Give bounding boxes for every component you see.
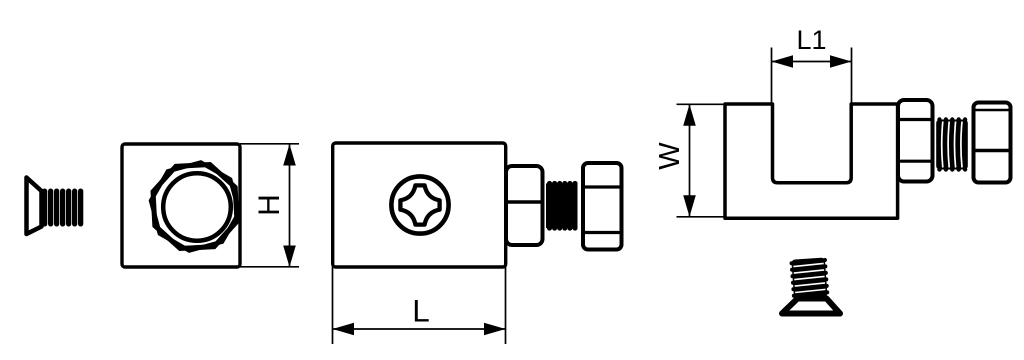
square nut block (front view) bbox=[122, 144, 245, 267]
bolt B1 nut (side view, on block2) bbox=[506, 166, 543, 245]
H arrow up bbox=[283, 144, 296, 166]
L1 extension line right bbox=[851, 48, 853, 105]
screw S1 head bbox=[27, 178, 42, 235]
L1 arrow left bbox=[772, 55, 794, 68]
screw S2 head bbox=[782, 299, 840, 314]
screw S2 (vertical, head down) bbox=[782, 257, 840, 313]
L extension line right bbox=[505, 267, 507, 344]
L1 extension line left bbox=[771, 48, 773, 105]
bolt B2 hex head (side view) bbox=[974, 103, 1011, 183]
H extension line bottom bbox=[240, 266, 299, 268]
screw S1 thread ribs bbox=[42, 189, 83, 227]
screw S1 (side view, countersunk head left, threads right) bbox=[27, 178, 84, 235]
bolt B2 head facet line upper bbox=[974, 109, 1011, 112]
bolt B1 hex head (side view) bbox=[583, 163, 622, 250]
dimension H bbox=[240, 144, 299, 267]
W arrow down bbox=[683, 195, 696, 217]
L extension line left bbox=[332, 267, 334, 344]
H arrow down bbox=[283, 246, 296, 268]
W extension line bottom bbox=[677, 216, 726, 218]
bolt B1 head facet line upper bbox=[583, 185, 622, 188]
dimension L1 bbox=[772, 25, 852, 104]
W extension line top bbox=[677, 103, 726, 105]
bolt B2 head facet line lower bbox=[974, 149, 1011, 153]
dimension L bbox=[333, 267, 506, 344]
clamp body (side view, C shape) bbox=[725, 104, 898, 218]
L arrow left bbox=[333, 323, 355, 336]
svg-text:L1: L1 bbox=[796, 25, 826, 55]
W dimension line bbox=[689, 104, 691, 217]
bolt B1 nut facet line bbox=[506, 200, 543, 204]
bolt B2 nut (side view, on clamp) bbox=[898, 100, 933, 182]
phillips screw head circle bbox=[391, 176, 448, 233]
screw S2 threaded shank bbox=[789, 257, 829, 299]
bolt B2 nut facet line lower bbox=[898, 160, 933, 163]
dimension W bbox=[654, 104, 725, 217]
H dimension line bbox=[289, 144, 291, 267]
L1 dimension line bbox=[772, 61, 852, 63]
L1 arrow right bbox=[830, 55, 852, 68]
svg-text:L: L bbox=[412, 293, 430, 329]
svg-text:H: H bbox=[253, 194, 286, 216]
L dimension line bbox=[333, 328, 506, 330]
serrated insert octagon B bbox=[145, 156, 246, 257]
serrated insert octagon A bbox=[145, 156, 246, 257]
bolt B2 threaded shank (coil) bbox=[936, 117, 968, 171]
clamp body block (front view) bbox=[333, 143, 506, 267]
phillips cross recess bbox=[400, 185, 439, 224]
bolt B1 threaded shank bbox=[546, 181, 578, 231]
insert bore circle bbox=[163, 173, 231, 241]
svg-text:W: W bbox=[654, 142, 686, 170]
bolt B2 nut facet line upper bbox=[898, 118, 933, 121]
bolt B1 head facet line lower bbox=[583, 231, 622, 234]
W arrow up bbox=[683, 104, 696, 126]
H extension line top bbox=[240, 143, 299, 145]
L arrow right bbox=[484, 323, 506, 336]
